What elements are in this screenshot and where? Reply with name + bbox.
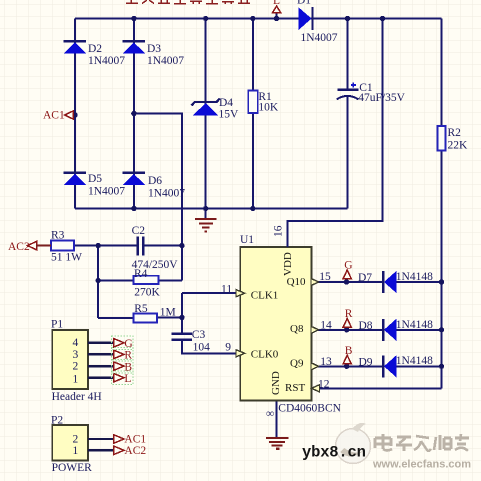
svg-text:D1: D1 [297,0,311,7]
svg-text:P2: P2 [51,415,63,427]
svg-text:9: 9 [225,342,231,354]
svg-text:U1: U1 [240,234,254,246]
svg-text:P1: P1 [51,319,63,331]
svg-text:G: G [124,338,132,350]
svg-text:12: 12 [318,379,330,391]
svg-text:R3: R3 [51,229,65,241]
svg-text:C2: C2 [132,225,146,237]
svg-text:1N4007: 1N4007 [88,186,125,198]
svg-text:AC2: AC2 [8,241,30,253]
svg-text:104: 104 [193,342,211,354]
svg-text:1N4007: 1N4007 [148,188,185,200]
svg-text:D4: D4 [219,97,233,109]
svg-text:1N4148: 1N4148 [396,319,433,331]
svg-text:ybx8.cn: ybx8.cn [302,444,366,462]
svg-text:4: 4 [73,337,79,349]
svg-text:AC2: AC2 [124,445,146,457]
svg-text:Q9: Q9 [290,358,304,370]
svg-text:D8: D8 [359,320,373,332]
svg-text:R4: R4 [134,268,148,280]
svg-text:11: 11 [221,284,232,296]
svg-text:D3: D3 [147,43,161,55]
svg-text:Q10: Q10 [287,276,306,288]
svg-text:1N4007: 1N4007 [301,32,338,44]
svg-text:270K: 270K [134,287,160,299]
svg-text:D5: D5 [88,173,102,185]
svg-text:51 1W: 51 1W [51,251,82,263]
svg-text:AC1: AC1 [124,434,146,446]
svg-text:1: 1 [73,445,79,457]
svg-text:Header 4H: Header 4H [52,391,102,403]
svg-text:AC1: AC1 [43,110,65,122]
svg-text:1M: 1M [160,307,176,319]
svg-text:D7: D7 [358,272,372,284]
svg-text:L: L [273,0,280,7]
svg-text:1N4007: 1N4007 [88,55,125,67]
svg-text:CLK0: CLK0 [251,349,279,361]
svg-text:3: 3 [73,349,79,361]
svg-text:2: 2 [73,434,79,446]
svg-text:VDD: VDD [282,252,294,276]
svg-text:B: B [124,361,132,373]
svg-text:C3: C3 [192,329,206,341]
svg-text:15V: 15V [219,109,240,121]
svg-text:Q8: Q8 [290,323,304,335]
svg-text:L: L [124,373,131,385]
svg-text:16: 16 [273,225,285,237]
svg-text:www.elecfans.com: www.elecfans.com [372,459,471,471]
svg-text:GND: GND [270,371,282,395]
svg-text:2: 2 [73,361,79,373]
svg-text:1N4148: 1N4148 [396,355,433,367]
svg-text:22K: 22K [448,140,469,152]
svg-text:POWER: POWER [52,462,93,474]
svg-text:R5: R5 [134,303,148,315]
svg-text:G: G [344,260,352,272]
svg-text:R2: R2 [448,127,462,139]
svg-text:∞: ∞ [266,408,274,420]
svg-text:B: B [345,345,353,357]
svg-text:D2: D2 [88,43,102,55]
svg-text:D6: D6 [148,175,162,187]
svg-text:RST: RST [285,382,305,394]
svg-text:10K: 10K [258,102,279,114]
svg-text:CLK1: CLK1 [251,290,278,302]
svg-text:D9: D9 [359,357,373,369]
svg-text:1: 1 [73,374,79,386]
svg-text:47uF/35V: 47uF/35V [358,92,405,104]
svg-text:R: R [345,308,353,320]
svg-text:CD4060BCN: CD4060BCN [278,403,341,415]
svg-text:R: R [124,350,132,362]
svg-text:1N4007: 1N4007 [147,55,184,67]
svg-text:15: 15 [319,271,331,283]
svg-text:1N4148: 1N4148 [396,271,433,283]
svg-text:13: 13 [320,356,332,368]
svg-text:14: 14 [320,320,332,332]
